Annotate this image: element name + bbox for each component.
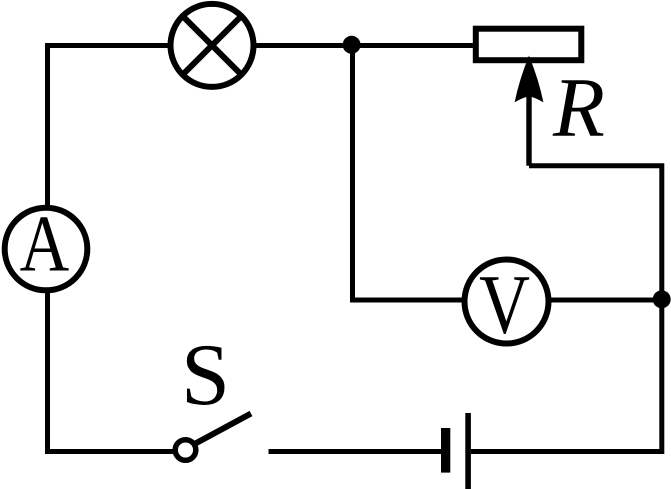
svg-text:A: A (20, 201, 70, 289)
wire: ammeter bottom to bottom-left corner to switch (48, 291, 175, 452)
node junction dot top (343, 36, 361, 54)
rheostat R body (rectangle) (476, 29, 582, 61)
wire: battery to bottom-right corner up right rail (471, 300, 662, 452)
voltmeter V (465, 257, 549, 350)
wire: voltmeter branch from top junction (353, 45, 465, 300)
wire: slider to right rail (529, 166, 662, 300)
switch S (pivot circle + lever) (175, 414, 251, 461)
svg-text:V: V (479, 257, 530, 350)
label S (181, 327, 230, 424)
wire: switch right to battery (269, 449, 442, 454)
wire: voltmeter right to right rail (549, 298, 662, 303)
svg-text:R: R (552, 61, 605, 155)
label R (552, 61, 605, 155)
svg-text:S: S (181, 327, 230, 424)
wire: lamp right to rheostat left (254, 43, 474, 48)
battery cell (441, 413, 471, 489)
node junction dot right (653, 290, 671, 308)
ammeter A (5, 201, 88, 291)
rheostat slider arrow (515, 56, 544, 166)
lamp (circle with X) (171, 4, 254, 87)
wire top-left: corner from lamp left to ammeter top (48, 46, 171, 208)
